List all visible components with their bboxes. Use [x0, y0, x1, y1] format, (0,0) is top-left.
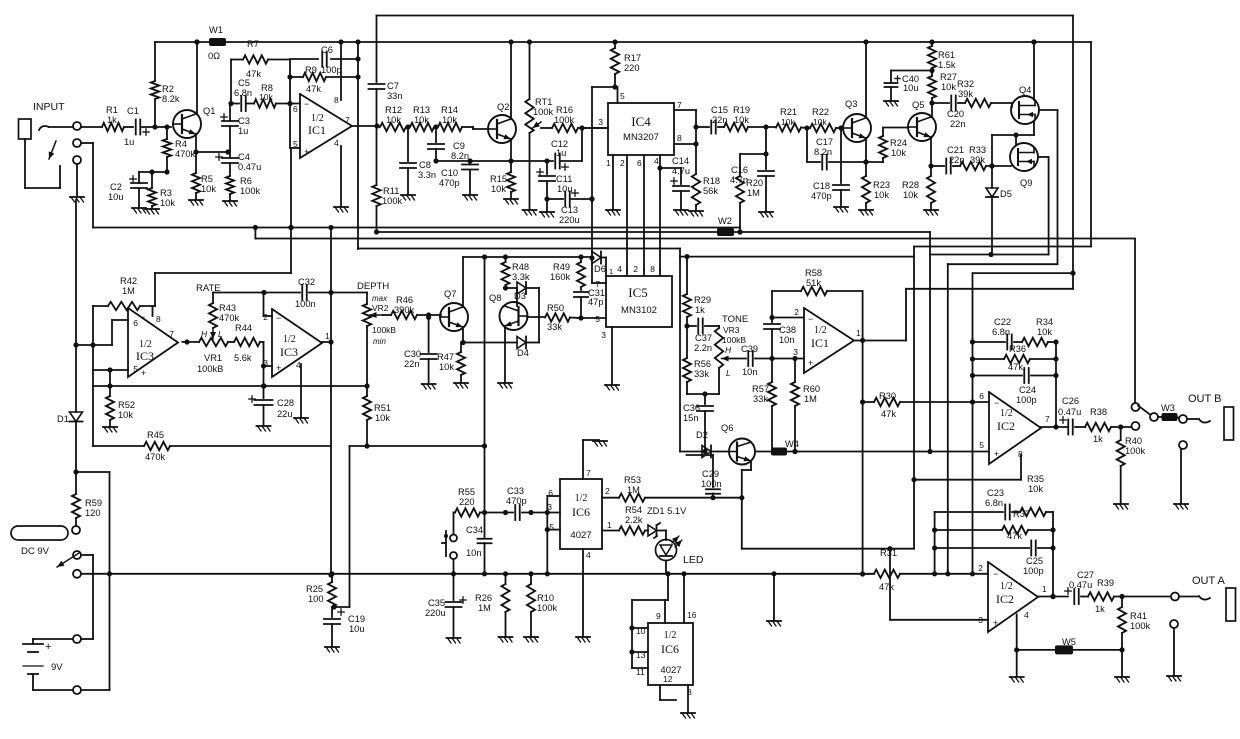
svg-text:IC3: IC3 [136, 349, 154, 363]
op-amp IC2b [979, 391, 1050, 464]
transistor Q2 [488, 102, 516, 143]
svg-text:Q2: Q2 [497, 102, 509, 112]
resistor R41 [1118, 597, 1151, 653]
svg-text:R54: R54 [625, 505, 642, 515]
pot VR1 [197, 338, 228, 374]
capacitor C31 [574, 287, 605, 318]
svg-text:6: 6 [637, 158, 642, 168]
svg-text:R24: R24 [890, 138, 907, 148]
wire R41 gnd [1121, 650, 1123, 676]
wire pin13 [629, 649, 648, 660]
wire Q9 out [1038, 157, 1049, 255]
wire pin5 row [680, 449, 989, 454]
svg-text:3: 3 [793, 347, 798, 357]
capacitor C26 [1058, 396, 1085, 435]
svg-text:5: 5 [620, 91, 625, 101]
wire frame right [1072, 16, 1074, 289]
svg-text:1: 1 [606, 158, 611, 168]
wire [141, 124, 171, 129]
ground [1115, 677, 1129, 682]
capacitor C32 [264, 277, 367, 309]
svg-text:IC6: IC6 [572, 505, 590, 519]
svg-text:100k: 100k [240, 186, 261, 196]
resistor R32 [957, 79, 1012, 107]
svg-text:R40: R40 [1125, 436, 1142, 446]
wire pin11 [632, 667, 648, 677]
capacitor C27 [1065, 570, 1094, 604]
svg-text:100p: 100p [1016, 395, 1037, 405]
resistor R50 [527, 303, 581, 332]
svg-text:max: max [372, 294, 388, 303]
resistor R2 [151, 42, 180, 127]
capacitor C30 [404, 315, 437, 383]
wire [687, 391, 719, 396]
wire rail [155, 39, 210, 44]
wire pin4 IC6a [583, 549, 591, 636]
jack switch arrow [25, 139, 60, 188]
wire pin4 [1014, 614, 1019, 676]
wire pin1 ground [606, 155, 620, 215]
svg-text:10k: 10k [439, 362, 454, 372]
svg-text:39k: 39k [958, 89, 973, 99]
wire top frame [377, 16, 1074, 83]
ground [576, 637, 590, 642]
wire rail-to-R31 [970, 571, 975, 576]
svg-text:100p: 100p [1023, 566, 1044, 576]
svg-text:10n: 10n [742, 367, 758, 377]
svg-text:D1: D1 [57, 414, 69, 424]
wire Q4 drain [1031, 39, 1036, 100]
wire bus v972 [972, 402, 974, 574]
wire [355, 42, 360, 249]
resistor R11 [372, 126, 402, 235]
svg-text:100kB: 100kB [197, 364, 223, 374]
capacitor C6 [290, 45, 358, 75]
svg-text:7: 7 [169, 329, 174, 339]
wire out down [860, 341, 865, 577]
wire pin6 IC6a [547, 488, 560, 513]
wire IC3a out [182, 339, 199, 344]
svg-text:100k: 100k [1130, 621, 1151, 631]
ground [1167, 676, 1181, 681]
svg-text:C1: C1 [127, 106, 139, 116]
svg-text:5.6k: 5.6k [234, 353, 252, 363]
svg-text:IC3: IC3 [280, 345, 298, 359]
wire [228, 60, 233, 107]
svg-text:R16: R16 [556, 105, 573, 115]
svg-text:1: 1 [325, 331, 330, 341]
wire pin5 elbow [589, 87, 625, 283]
svg-text:470p: 470p [439, 178, 460, 188]
wire ground return [93, 143, 358, 230]
ground [454, 383, 468, 388]
wire row257 [463, 254, 592, 259]
capacitor C37 [687, 319, 719, 354]
ground [1174, 504, 1188, 509]
wire base [473, 127, 489, 129]
svg-text:10k: 10k [491, 184, 506, 194]
svg-text:470k: 470k [175, 149, 196, 159]
resistor R16 [541, 105, 608, 132]
svg-text:VR2: VR2 [372, 303, 389, 313]
svg-text:2: 2 [263, 312, 268, 322]
wire bus y264 [948, 264, 1058, 570]
wire pin5 row [578, 314, 606, 324]
svg-text:R21: R21 [780, 107, 797, 117]
svg-text:IC4: IC4 [631, 114, 651, 129]
jumper W5 [1017, 637, 1122, 654]
capacitor C24 [973, 368, 1059, 405]
wire Q6 in [718, 451, 729, 453]
switch arrow dc [57, 553, 79, 567]
svg-text:5: 5 [133, 364, 138, 374]
svg-text:33k: 33k [547, 322, 562, 332]
capacitor C4 [216, 152, 261, 176]
svg-text:C34: C34 [466, 525, 483, 535]
capacitor C3 [221, 104, 250, 153]
wire Q8 collector [516, 288, 518, 306]
svg-text:15n: 15n [683, 413, 699, 423]
svg-text:R6: R6 [240, 176, 252, 186]
resistor R18 [692, 174, 720, 210]
svg-text:C9: C9 [453, 141, 465, 151]
svg-text:10n: 10n [779, 335, 795, 345]
ground [499, 637, 513, 642]
svg-text:2: 2 [978, 563, 983, 573]
svg-text:6: 6 [293, 104, 298, 114]
transistor Q1 [173, 106, 215, 138]
capacitor C7 [369, 81, 403, 101]
resistor R40 [1117, 427, 1146, 503]
svg-text:C17: C17 [816, 137, 833, 147]
svg-text:C21: C21 [947, 145, 964, 155]
ground [859, 210, 873, 215]
wire bias node [139, 169, 167, 174]
wire pin4 col [617, 264, 627, 276]
svg-text:0.47u: 0.47u [1058, 407, 1081, 417]
resistor R57 [752, 359, 776, 452]
IC U-IC5 [606, 276, 672, 327]
ground [689, 211, 703, 216]
svg-text:1u: 1u [124, 137, 134, 147]
diode D5 [986, 166, 1012, 255]
resistor R14 [433, 105, 473, 131]
wire Q6 emitter [739, 462, 751, 549]
svg-text:R56: R56 [694, 359, 711, 369]
wire pin7 [674, 100, 699, 174]
svg-text:C38: C38 [779, 325, 796, 335]
svg-text:IC2: IC2 [996, 592, 1014, 606]
resistor R8 [246, 83, 300, 108]
svg-text:min: min [373, 337, 386, 346]
svg-text:2.2k: 2.2k [625, 515, 643, 525]
wire Q7 collector [462, 257, 464, 307]
wire D1 top [73, 200, 78, 348]
ground [257, 426, 271, 431]
jack OUT A sleeve [1170, 620, 1178, 675]
wire IC1b out [854, 289, 1073, 343]
svg-text:R12: R12 [385, 105, 402, 115]
svg-text:470p: 470p [506, 496, 527, 506]
svg-text:8: 8 [650, 264, 655, 274]
wire pin8 col [650, 264, 660, 276]
op-amp IC1a [293, 94, 352, 158]
wire pin8 gnd [687, 685, 692, 712]
wire pin12 [660, 674, 676, 700]
svg-text:D6: D6 [594, 264, 606, 274]
svg-text:10k: 10k [160, 198, 175, 208]
svg-text:C30: C30 [404, 349, 421, 359]
svg-text:R27: R27 [940, 72, 957, 82]
resistor R45 [93, 386, 331, 462]
wire pin3 [261, 342, 272, 369]
svg-text:R4: R4 [175, 139, 187, 149]
resistor R22 [801, 107, 844, 132]
svg-text:8: 8 [334, 95, 339, 105]
resistor R47 [437, 343, 465, 383]
svg-text:10k: 10k [201, 184, 216, 194]
svg-text:−: − [994, 398, 999, 408]
svg-text:R35: R35 [1027, 474, 1044, 484]
capacitor C14 [660, 156, 690, 209]
capacitor C16 [730, 127, 774, 211]
svg-text:10k: 10k [375, 413, 390, 423]
svg-text:RT1: RT1 [535, 97, 552, 107]
resistor R13 [410, 105, 434, 131]
resistor R33 [960, 145, 1011, 170]
capacitor C40 [885, 71, 933, 101]
resistor R51 [350, 386, 392, 446]
op-amp IC3b [263, 309, 330, 377]
svg-text:+: + [276, 363, 281, 373]
svg-text:100k: 100k [1125, 446, 1146, 456]
capacitor C23 [935, 488, 1020, 520]
transistor Q5 [908, 100, 936, 141]
pot VR3 wiper [722, 356, 730, 362]
svg-text:4: 4 [334, 138, 339, 148]
wire hold feed [364, 257, 487, 513]
transistor Q6 [721, 423, 755, 465]
capacitor C39 [729, 344, 804, 377]
ground [759, 212, 773, 217]
jack OUT A [1171, 575, 1236, 621]
capacitor C22 [973, 317, 1023, 350]
svg-text:1: 1 [856, 328, 861, 338]
svg-text:3.3k: 3.3k [512, 272, 530, 282]
svg-text:+: + [141, 368, 146, 378]
svg-text:C29: C29 [702, 469, 719, 479]
wire pin3 gnd [601, 327, 619, 390]
switch SW-rate [442, 513, 457, 574]
wire Q4 source [989, 121, 1034, 169]
svg-text:10k: 10k [1037, 327, 1052, 337]
wire RATE node [196, 283, 267, 295]
resistor R58 [769, 268, 862, 341]
ground [504, 199, 518, 204]
svg-text:R41: R41 [1130, 611, 1147, 621]
svg-text:R38: R38 [1090, 407, 1107, 417]
svg-text:47k: 47k [306, 84, 321, 94]
wire pin8 [340, 42, 342, 100]
wire pin9 [632, 574, 668, 668]
svg-text:8.2n: 8.2n [451, 151, 469, 161]
wire Q4 out [1039, 110, 1058, 264]
wire bus y238 [255, 228, 1135, 404]
svg-text:R59: R59 [85, 498, 102, 508]
svg-text:IC1: IC1 [811, 336, 829, 350]
wire LFO top [155, 228, 291, 307]
svg-text:2: 2 [633, 264, 638, 274]
op-amp IC1b [793, 308, 861, 373]
transistor Q7 [440, 289, 468, 331]
wire pin3 label [547, 502, 552, 512]
ground [524, 637, 538, 642]
resistor R60 [791, 359, 820, 455]
resistor R5 [192, 152, 216, 199]
input jack J1 [19, 101, 82, 164]
wire pin5 [288, 148, 300, 230]
svg-text:6.8n: 6.8n [985, 498, 1003, 508]
svg-text:R13: R13 [413, 105, 430, 115]
capacitor C10 [439, 161, 478, 194]
svg-text:−: − [993, 569, 998, 579]
ground [70, 164, 84, 202]
svg-text:1/2: 1/2 [1000, 408, 1013, 419]
ground [145, 209, 159, 214]
wire bus y232 [377, 229, 931, 234]
capacitor C34 [466, 513, 492, 574]
DC jack [11, 526, 81, 578]
svg-text:R17: R17 [624, 53, 641, 63]
wire pin3 [582, 117, 608, 128]
wire bus y248 [358, 249, 680, 257]
ground [540, 212, 554, 217]
capacitor C38 [764, 318, 796, 359]
svg-text:IC5: IC5 [628, 285, 648, 300]
svg-text:R2: R2 [162, 84, 174, 94]
capacitor C8 [400, 127, 436, 194]
svg-text:33k: 33k [694, 369, 709, 379]
svg-text:22u: 22u [277, 409, 293, 419]
svg-text:100: 100 [308, 594, 324, 604]
svg-text:6.8n: 6.8n [234, 88, 252, 98]
resistor R42 [93, 276, 155, 310]
wire pin8 path [742, 455, 1021, 549]
jumper W3 [1158, 403, 1179, 421]
resistor R54 [602, 505, 648, 535]
capacitor C29 [687, 455, 722, 498]
svg-text:R37: R37 [1013, 509, 1030, 519]
svg-text:C7: C7 [387, 81, 399, 91]
op-amp IC2a [978, 562, 1047, 632]
svg-text:220: 220 [459, 497, 475, 507]
svg-text:C4: C4 [238, 152, 250, 162]
svg-text:1/2: 1/2 [814, 325, 827, 336]
resistor R39 [1088, 578, 1171, 614]
wire bus y246 [914, 42, 1091, 247]
wire pin2 row [772, 307, 813, 324]
svg-text:100k: 100k [382, 196, 403, 206]
svg-text:7: 7 [586, 468, 591, 478]
svg-text:LED: LED [683, 554, 704, 566]
svg-text:1: 1 [1042, 584, 1047, 594]
wire R51 col [334, 446, 350, 607]
pot VR1 wiper [201, 328, 223, 339]
resistor R20 [736, 154, 766, 235]
wire pin4 col [654, 155, 663, 270]
svg-text:R34: R34 [1036, 317, 1053, 327]
capacitor C9 [428, 127, 469, 164]
trimmer RT1 [525, 42, 553, 209]
transistor Q8 [489, 293, 528, 330]
pot VR2 wiper [370, 312, 384, 318]
jack OUT B sleeve [1179, 441, 1187, 503]
svg-text:R49: R49 [553, 262, 570, 272]
svg-text:C2: C2 [110, 182, 122, 192]
wire row386 [93, 370, 370, 389]
svg-text:16: 16 [687, 610, 697, 620]
resistor R38 [1085, 407, 1131, 444]
wire pin8 [674, 133, 696, 144]
wire pin6 col [637, 155, 644, 270]
svg-text:D4: D4 [517, 348, 529, 358]
wire Q3 collector [865, 42, 867, 117]
svg-text:3: 3 [601, 330, 606, 340]
svg-text:2: 2 [794, 307, 799, 317]
IC U-IC6b [648, 623, 693, 685]
svg-text:100p: 100p [321, 65, 342, 75]
LED LED1 [656, 531, 704, 574]
svg-text:C35: C35 [428, 598, 445, 608]
resistor R36 [973, 344, 1059, 372]
ground [884, 101, 898, 106]
svg-text:R61: R61 [938, 50, 955, 60]
switch SW-outB [1132, 403, 1159, 430]
ground [294, 418, 308, 423]
wire fb rail left [970, 338, 975, 402]
svg-text:Q8: Q8 [489, 293, 501, 303]
resistor R6 [226, 176, 261, 200]
ground [132, 208, 146, 213]
svg-text:1/2: 1/2 [664, 630, 677, 641]
wire [81, 126, 102, 128]
svg-text:MN3207: MN3207 [623, 132, 659, 143]
ground [523, 210, 537, 215]
ground [924, 210, 938, 215]
wire [376, 89, 378, 126]
svg-text:C26: C26 [1062, 396, 1079, 406]
svg-text:10k: 10k [903, 190, 918, 200]
resistor R61 [928, 42, 956, 76]
svg-text:W1: W1 [209, 25, 223, 35]
jack OUT B [1179, 393, 1234, 440]
svg-text:3: 3 [598, 117, 603, 127]
capacitor C15 [696, 105, 728, 134]
resistor R55 [454, 487, 488, 517]
svg-text:+: + [808, 358, 813, 368]
resistor R34 [1022, 317, 1059, 346]
svg-text:R32: R32 [957, 79, 974, 89]
svg-text:R55: R55 [458, 487, 475, 497]
capacitor C18 [811, 128, 849, 206]
svg-text:4027: 4027 [570, 530, 591, 541]
svg-text:Q5: Q5 [912, 100, 924, 110]
svg-text:R48: R48 [512, 262, 529, 272]
resistor R7 [231, 39, 290, 79]
svg-text:R10: R10 [537, 593, 554, 603]
svg-text:Q4: Q4 [1019, 85, 1031, 95]
diode D4 [506, 337, 539, 359]
